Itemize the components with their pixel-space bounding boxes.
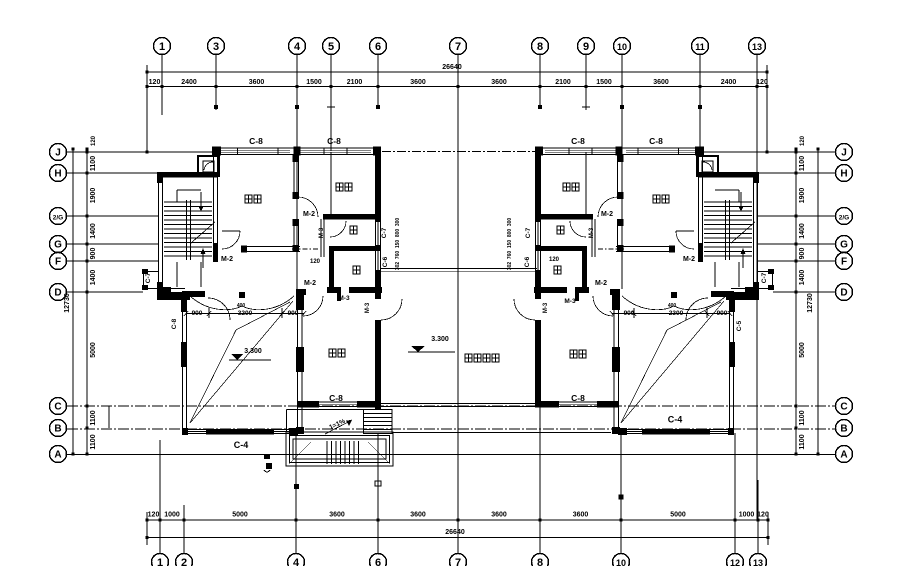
svg-text:13: 13 bbox=[752, 42, 762, 52]
right bedroom2 label bbox=[563, 183, 570, 191]
axis B right circle bbox=[836, 420, 853, 437]
svg-text:900: 900 bbox=[799, 248, 806, 260]
svg-text:1100: 1100 bbox=[90, 410, 97, 425]
left WC label bbox=[350, 226, 357, 234]
svg-text:1400: 1400 bbox=[799, 223, 806, 239]
svg-text:9: 9 bbox=[583, 41, 589, 53]
svg-text:5000: 5000 bbox=[232, 512, 248, 519]
extension tick right bbox=[619, 495, 624, 500]
right overall dimension line 12730 bbox=[817, 149, 819, 454]
svg-text:400: 400 bbox=[668, 303, 677, 309]
svg-text:M-3: M-3 bbox=[338, 295, 350, 302]
svg-text:C-8: C-8 bbox=[649, 136, 663, 146]
svg-text:M-2: M-2 bbox=[601, 211, 613, 218]
svg-text:3600: 3600 bbox=[410, 512, 426, 519]
left terrace bottom wall C-4 bbox=[183, 429, 298, 431]
left stairwell entry door arc bbox=[208, 298, 230, 320]
right stair stringer bbox=[729, 200, 731, 260]
left bedroom3 top pier bbox=[296, 289, 306, 295]
svg-text:1: 1 bbox=[157, 557, 163, 566]
porch wall tick bbox=[375, 405, 381, 410]
svg-text:F: F bbox=[55, 257, 61, 268]
left inner wall with C-7/C-6 windows bbox=[375, 148, 381, 222]
left terrace left wall bbox=[182, 299, 184, 429]
svg-text:2400: 2400 bbox=[181, 79, 197, 86]
left bedroom2 bottom wall bbox=[323, 214, 381, 220]
svg-text:1: 1 bbox=[159, 41, 165, 53]
svg-text:302: 302 bbox=[507, 262, 513, 271]
svg-text:1900: 1900 bbox=[799, 188, 806, 204]
right terrace curved edge bbox=[622, 296, 726, 310]
axis C right circle bbox=[836, 398, 853, 415]
svg-text:A: A bbox=[54, 450, 61, 461]
svg-text:760: 760 bbox=[395, 251, 401, 260]
svg-text:7: 7 bbox=[455, 557, 461, 566]
porch hip diagonals bbox=[289, 442, 311, 464]
svg-text:M-3: M-3 bbox=[564, 298, 576, 305]
svg-text:C-4: C-4 bbox=[668, 415, 683, 425]
svg-text:M-2: M-2 bbox=[221, 256, 233, 263]
svg-text:C-6: C-6 bbox=[382, 256, 389, 267]
right platform door arc bbox=[514, 299, 535, 320]
axis 12 bottom circle bbox=[727, 554, 744, 566]
svg-text:8: 8 bbox=[537, 41, 543, 53]
svg-text:3600: 3600 bbox=[653, 79, 669, 86]
svg-text:C-4: C-4 bbox=[234, 440, 249, 450]
left stairwell walls bbox=[158, 172, 160, 293]
axis J left circle bbox=[50, 144, 67, 161]
right bedroom3 label bbox=[570, 350, 577, 358]
right terrace inner dim line bbox=[612, 313, 730, 315]
svg-text:2400: 2400 bbox=[721, 79, 737, 86]
tick at J x147 bbox=[146, 151, 149, 154]
left stairwell top wall bbox=[158, 172, 218, 178]
svg-text:G: G bbox=[840, 240, 848, 251]
right top exterior wall bbox=[535, 147, 703, 149]
svg-text:1100: 1100 bbox=[799, 434, 806, 449]
right stairwell bottom wall bbox=[745, 287, 759, 296]
axis C left circle bbox=[50, 398, 67, 415]
left terrace inner wall with windows bbox=[296, 289, 304, 310]
svg-text:M-2: M-2 bbox=[595, 280, 607, 287]
svg-text:C-6: C-6 bbox=[524, 256, 531, 267]
axis G right circle bbox=[836, 236, 853, 253]
left segment dimension line bbox=[86, 149, 88, 454]
svg-text:6: 6 bbox=[375, 557, 381, 566]
svg-text:C-7: C-7 bbox=[381, 227, 388, 238]
svg-text:1000: 1000 bbox=[739, 512, 755, 519]
left terrace inner dim line bbox=[186, 313, 304, 315]
axis 7 top circle bbox=[450, 38, 467, 55]
right stairwell walls bbox=[757, 172, 759, 293]
svg-text:C: C bbox=[54, 402, 61, 413]
svg-text:120: 120 bbox=[149, 79, 161, 86]
right WC label bbox=[557, 226, 564, 234]
axis J right circle bbox=[836, 144, 853, 161]
svg-text:120: 120 bbox=[91, 135, 97, 146]
left bedroom1 door M-2 bbox=[222, 230, 240, 232]
axis G left circle bbox=[50, 236, 67, 253]
extension tick bbox=[294, 484, 299, 489]
stair direction arrows bbox=[740, 192, 742, 210]
svg-text:F: F bbox=[841, 257, 847, 268]
right stair treads bbox=[704, 201, 752, 203]
left bedroom2 label bbox=[336, 183, 343, 191]
svg-text:2300: 2300 bbox=[669, 310, 684, 317]
axis A left circle bbox=[50, 446, 67, 463]
svg-text:M-3: M-3 bbox=[589, 227, 595, 238]
svg-text:C-7: C-7 bbox=[145, 272, 152, 283]
porch slope arrow 1=1% bbox=[325, 420, 352, 434]
axis 3 top circle bbox=[208, 38, 225, 55]
right bedroom1 label bbox=[653, 195, 660, 203]
svg-text:11: 11 bbox=[695, 42, 705, 52]
left terrace curved edge bbox=[190, 296, 294, 310]
left stairwell bottom wall bbox=[157, 287, 171, 296]
svg-text:C-8: C-8 bbox=[249, 136, 263, 146]
porch right flight treads bbox=[363, 409, 365, 434]
svg-text:C-8: C-8 bbox=[329, 393, 343, 403]
axis 2/G left circle bbox=[50, 208, 67, 225]
svg-text:C-8: C-8 bbox=[327, 136, 341, 146]
svg-text:2100: 2100 bbox=[555, 79, 571, 86]
right bedroom3 bottom wall bbox=[597, 401, 619, 408]
right terrace top-left wall bbox=[726, 293, 759, 300]
axis 10 bottom circle bbox=[613, 554, 630, 566]
axis A right circle bbox=[836, 446, 853, 463]
right bedroom2 bottom wall bbox=[535, 214, 593, 220]
axis 13 bottom circle bbox=[750, 554, 767, 566]
svg-text:1400: 1400 bbox=[90, 223, 97, 239]
axis F left circle bbox=[50, 253, 67, 270]
right bedroom3 top pier bbox=[610, 289, 620, 295]
svg-text:1100: 1100 bbox=[799, 156, 806, 171]
svg-text:12: 12 bbox=[730, 558, 740, 566]
svg-text:7: 7 bbox=[455, 41, 461, 53]
left C-7 bay bbox=[143, 271, 145, 289]
svg-text:D: D bbox=[54, 288, 61, 299]
right inner wall with C-7/C-6 windows bbox=[535, 148, 541, 222]
roof platform top edge bbox=[381, 268, 537, 270]
left bedroom3 door M-2 arc bbox=[303, 296, 323, 316]
svg-text:3600: 3600 bbox=[491, 79, 507, 86]
right bathroom walls bbox=[594, 219, 596, 257]
svg-text:2/G: 2/G bbox=[839, 215, 849, 222]
axis D left circle bbox=[50, 284, 67, 301]
svg-text:3.300: 3.300 bbox=[244, 348, 262, 355]
svg-text:C-5: C-5 bbox=[736, 320, 743, 331]
svg-text:26640: 26640 bbox=[442, 64, 462, 71]
right bedroom1 bottom wall bbox=[616, 246, 675, 248]
axis 6 bottom circle bbox=[370, 554, 387, 566]
svg-text:12730: 12730 bbox=[64, 293, 71, 313]
horizontal axis grid lines bbox=[67, 151, 213, 153]
left overall dimension line 12730 bbox=[72, 149, 74, 454]
left bedroom1 bottom wall bbox=[241, 246, 300, 248]
left bedroom3 label bbox=[329, 349, 336, 357]
left stair flight guides bbox=[177, 189, 201, 191]
right stairwell entry door arc bbox=[686, 298, 708, 320]
right stairwell top wall bbox=[698, 172, 758, 178]
svg-text:150: 150 bbox=[395, 240, 401, 249]
svg-text:120: 120 bbox=[757, 512, 769, 519]
svg-text:3600: 3600 bbox=[329, 512, 345, 519]
axis B left circle bbox=[50, 420, 67, 437]
svg-text:B: B bbox=[840, 424, 847, 435]
axis 11 top circle bbox=[692, 38, 709, 55]
axis F right circle bbox=[836, 253, 853, 270]
svg-text:2100: 2100 bbox=[347, 79, 363, 86]
svg-text:120: 120 bbox=[756, 79, 768, 86]
svg-text:1900: 1900 bbox=[90, 188, 97, 204]
svg-text:300: 300 bbox=[507, 218, 513, 227]
axis 8 bottom circle bbox=[532, 554, 549, 566]
svg-text:5: 5 bbox=[328, 41, 334, 53]
svg-text:C-8: C-8 bbox=[171, 318, 178, 329]
svg-text:3600: 3600 bbox=[249, 79, 265, 86]
svg-text:120: 120 bbox=[148, 512, 160, 519]
axis 9 top circle bbox=[578, 38, 595, 55]
stair direction arrows bbox=[200, 192, 202, 210]
svg-text:M-2: M-2 bbox=[683, 256, 695, 263]
secondary tick squares bbox=[214, 105, 218, 109]
svg-text:10: 10 bbox=[616, 558, 626, 566]
right terrace bottom wall C-4 bbox=[618, 429, 733, 431]
svg-text:3200: 3200 bbox=[238, 310, 253, 317]
roof platform bottom edge bbox=[381, 403, 535, 405]
svg-text:6: 6 bbox=[375, 41, 381, 53]
svg-text:150: 150 bbox=[507, 240, 513, 249]
svg-text:3600: 3600 bbox=[573, 512, 589, 519]
right bedroom2 door M-2 arc bbox=[598, 197, 618, 217]
svg-text:900: 900 bbox=[288, 310, 299, 317]
svg-text:400: 400 bbox=[237, 303, 246, 309]
svg-text:1400: 1400 bbox=[799, 270, 806, 286]
svg-text:M-3: M-3 bbox=[365, 302, 371, 313]
tick at J x767 bbox=[766, 151, 769, 154]
stair break line bbox=[731, 222, 755, 243]
left platform door arc bbox=[381, 299, 402, 320]
svg-text:4: 4 bbox=[293, 557, 300, 566]
right bathroom door arc bbox=[570, 221, 586, 237]
svg-text:120: 120 bbox=[800, 135, 806, 146]
svg-text:2/G: 2/G bbox=[53, 215, 63, 222]
svg-text:302: 302 bbox=[395, 262, 401, 271]
svg-text:3600: 3600 bbox=[410, 79, 426, 86]
right divider wall bbox=[621, 155, 623, 199]
left bedroom3 bottom wall bbox=[297, 401, 319, 408]
svg-text:M-3: M-3 bbox=[319, 227, 325, 238]
left bathroom walls bbox=[320, 219, 322, 257]
svg-text:26640: 26640 bbox=[445, 529, 465, 536]
axis 2/G right circle bbox=[836, 208, 853, 225]
svg-text:G: G bbox=[54, 240, 62, 251]
bottom overall dimension line 26640 bbox=[147, 537, 768, 539]
svg-text:1400: 1400 bbox=[90, 270, 97, 286]
axis 13 top circle bbox=[749, 38, 766, 55]
top overall dimension line 26640 bbox=[147, 71, 767, 73]
svg-text:5000: 5000 bbox=[90, 342, 97, 358]
svg-text:900: 900 bbox=[624, 310, 635, 317]
right terrace inner wall with windows bbox=[612, 289, 620, 310]
svg-text:5000: 5000 bbox=[670, 512, 686, 519]
svg-text:4: 4 bbox=[294, 41, 301, 53]
svg-text:C-7: C-7 bbox=[525, 227, 532, 238]
left divider wall bbox=[293, 155, 295, 199]
eave line bbox=[393, 432, 611, 434]
svg-text:800: 800 bbox=[395, 229, 401, 238]
axis 10 top circle bbox=[614, 38, 631, 55]
right C-7 bay bbox=[772, 271, 774, 289]
svg-text:D: D bbox=[840, 288, 847, 299]
right stair flight guides bbox=[715, 189, 739, 191]
porch bottom treads bbox=[326, 441, 328, 464]
axis D right circle bbox=[836, 284, 853, 301]
axis 1 bottom circle bbox=[152, 554, 169, 566]
left terrace top-left wall bbox=[157, 293, 190, 300]
roof platform label bbox=[465, 354, 472, 362]
interior axis line continuations bbox=[296, 148, 298, 289]
svg-text:800: 800 bbox=[507, 229, 513, 238]
svg-text:J: J bbox=[841, 148, 847, 159]
right rain fitting bbox=[671, 292, 677, 298]
right terrace diagonals bbox=[621, 301, 724, 423]
right segment dimension line bbox=[795, 149, 797, 454]
svg-text:M-3: M-3 bbox=[543, 302, 549, 313]
axis 4 top circle bbox=[289, 38, 306, 55]
svg-text:H: H bbox=[54, 169, 61, 180]
vertical axis grid lines bbox=[146, 65, 148, 152]
svg-text:J: J bbox=[55, 148, 61, 159]
svg-text:H: H bbox=[840, 169, 847, 180]
axis H right circle bbox=[836, 165, 853, 182]
axis 1 top circle bbox=[154, 38, 171, 55]
svg-text:C-8: C-8 bbox=[571, 136, 585, 146]
bottom segment dimension line bbox=[147, 519, 768, 521]
left top exterior wall bbox=[213, 147, 381, 149]
svg-text:3600: 3600 bbox=[491, 512, 507, 519]
left bedroom1 label bbox=[245, 195, 252, 203]
axis 7 bottom circle bbox=[450, 554, 467, 566]
small pipe symbols bbox=[264, 454, 270, 459]
axis 5 top circle bbox=[323, 38, 340, 55]
svg-text:M-2: M-2 bbox=[303, 211, 315, 218]
svg-text:10: 10 bbox=[617, 42, 627, 52]
svg-text:1100: 1100 bbox=[90, 156, 97, 171]
left bedroom2 door M-2 arc bbox=[298, 197, 318, 217]
svg-text:B: B bbox=[54, 424, 61, 435]
svg-text:760: 760 bbox=[507, 251, 513, 260]
entry porch upper landing edge bbox=[287, 409, 364, 411]
right terrace left wall bbox=[733, 299, 735, 429]
svg-text:120: 120 bbox=[310, 259, 321, 265]
left flue box bbox=[198, 156, 219, 176]
left bathroom door arc bbox=[330, 221, 346, 237]
svg-text:1500: 1500 bbox=[596, 79, 612, 86]
right bedroom3 door M-2 arc bbox=[593, 296, 613, 316]
axis 2 bottom circle bbox=[176, 554, 193, 566]
axis 8 top circle bbox=[532, 38, 549, 55]
axis H left circle bbox=[50, 165, 67, 182]
svg-text:C: C bbox=[840, 402, 847, 413]
svg-text:1000: 1000 bbox=[164, 512, 180, 519]
svg-text:13: 13 bbox=[753, 558, 763, 566]
left stair stringer bbox=[186, 200, 188, 260]
svg-text:1500: 1500 bbox=[306, 79, 322, 86]
right flue box bbox=[697, 156, 718, 176]
svg-text:M-2: M-2 bbox=[304, 280, 316, 287]
axis 6 top circle bbox=[370, 38, 387, 55]
svg-text:1100: 1100 bbox=[90, 434, 97, 449]
svg-text:900: 900 bbox=[90, 248, 97, 260]
svg-text:C-7: C-7 bbox=[761, 272, 768, 283]
svg-text:C-8: C-8 bbox=[571, 393, 585, 403]
svg-text:5000: 5000 bbox=[799, 342, 806, 358]
svg-text:900: 900 bbox=[192, 310, 203, 317]
left terrace diagonals bbox=[190, 301, 293, 423]
svg-text:1100: 1100 bbox=[799, 410, 806, 425]
svg-text:8: 8 bbox=[537, 557, 543, 566]
svg-text:3.300: 3.300 bbox=[431, 336, 449, 343]
svg-text:3: 3 bbox=[213, 41, 219, 53]
axis 4 bottom circle bbox=[288, 554, 305, 566]
svg-text:2: 2 bbox=[181, 557, 187, 566]
svg-text:120: 120 bbox=[549, 257, 560, 263]
top segment dimension line bbox=[147, 86, 767, 88]
svg-text:300: 300 bbox=[395, 218, 401, 227]
svg-text:A: A bbox=[840, 450, 847, 461]
entry porch border bbox=[286, 432, 393, 466]
stair break line bbox=[191, 222, 215, 243]
svg-text:12730: 12730 bbox=[807, 293, 814, 313]
left rain fitting bbox=[239, 292, 245, 298]
left stair treads bbox=[164, 201, 212, 203]
svg-text:900: 900 bbox=[717, 310, 728, 317]
right bedroom1 door M-2 bbox=[676, 230, 694, 232]
